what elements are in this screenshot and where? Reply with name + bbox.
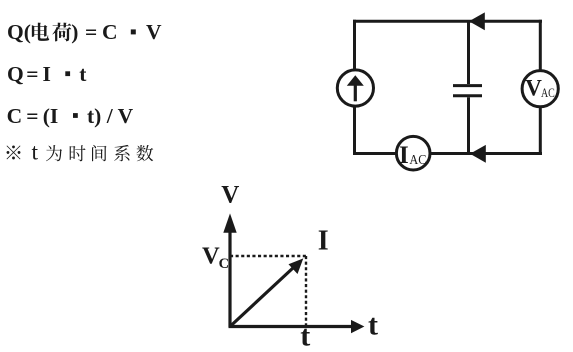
svg-text:AC: AC: [409, 152, 426, 167]
svg-text:t: t: [32, 140, 39, 166]
svg-text:=: =: [26, 62, 38, 86]
svg-text:=: =: [85, 20, 97, 44]
wire left branch (current source): [353, 20, 356, 155]
hanzi HE (charge): [52, 23, 71, 42]
graph V axis (vertical): [223, 213, 236, 327]
svg-text:I: I: [43, 62, 51, 86]
svg-text:Q: Q: [7, 62, 24, 86]
current source symbol (circle with up arrow): [337, 70, 373, 106]
hanzi SHI (time): [70, 145, 86, 161]
hanzi SHU (coefficient-2): [137, 145, 154, 161]
wire right branch (voltmeter): [539, 20, 542, 155]
svg-text:C: C: [219, 256, 229, 272]
current arrow on bottom wire (pointing left): [470, 145, 486, 163]
svg-text:Q(: Q(: [7, 20, 31, 44]
svg-text:t: t: [368, 309, 378, 342]
svg-text:t: t: [300, 320, 310, 352]
dashed level line Vc: [230, 255, 307, 257]
hanzi DIAN (electric): [32, 23, 49, 41]
reference mark sign: [7, 145, 21, 159]
svg-text:=: =: [26, 104, 38, 128]
svg-text:t: t: [79, 62, 87, 86]
wire bottom: from current source to voltmeter branch: [353, 152, 542, 155]
svg-text:C: C: [102, 20, 118, 44]
AC ammeter IAC: [396, 136, 430, 170]
wire middle branch (capacitor): [467, 21, 470, 84]
multiplication dot line 1: [131, 29, 136, 34]
dashed time line t: [305, 256, 307, 327]
svg-text:V: V: [525, 76, 542, 101]
current arrow on top wire (pointing left): [469, 12, 485, 30]
svg-text:I: I: [318, 225, 329, 256]
capacitor C (two plates): [453, 84, 482, 87]
svg-text:V: V: [221, 182, 239, 209]
wire top: from current source to voltmeter branch: [353, 20, 542, 23]
current ramp arrow I (diagonal): [230, 258, 303, 326]
graph t axis (horizontal): [229, 320, 365, 333]
hanzi XI (coefficient-1): [114, 145, 129, 161]
hanzi JIAN (interval): [92, 145, 107, 161]
svg-text:C: C: [7, 104, 23, 128]
AC voltmeter VAC: [522, 71, 558, 107]
svg-text:V: V: [202, 243, 220, 270]
multiplication dot line 3: [73, 113, 78, 118]
svg-text:t) / V: t) / V: [87, 104, 134, 128]
svg-text:): ): [71, 20, 78, 44]
svg-text:AC: AC: [541, 85, 555, 100]
svg-text:I: I: [399, 142, 409, 169]
svg-text:(I: (I: [43, 104, 59, 128]
multiplication dot line 2: [65, 71, 70, 76]
hanzi WEI (is): [46, 145, 62, 161]
svg-text:V: V: [146, 20, 162, 44]
